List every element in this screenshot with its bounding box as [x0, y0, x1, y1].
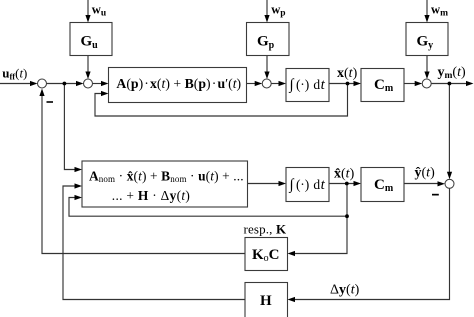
svg-text:Δy(t): Δy(t)	[330, 283, 360, 298]
svg-text:A(p) · x(t) + B(p) · u′(t): A(p) · x(t) + B(p) · u′(t)	[116, 76, 241, 92]
svg-text:x(t): x(t)	[337, 66, 358, 81]
svg-text:... + H · Δy(t): ... + H · Δy(t)	[112, 188, 190, 203]
svg-text:uff(t): uff(t)	[2, 67, 27, 82]
svg-text:ŷ(t): ŷ(t)	[415, 166, 436, 181]
svg-text:x̂(t): x̂(t)	[334, 167, 355, 182]
svg-text:resp., K: resp., K	[244, 222, 287, 237]
svg-text:ym(t): ym(t)	[438, 65, 466, 81]
svg-text:H: H	[260, 293, 272, 309]
